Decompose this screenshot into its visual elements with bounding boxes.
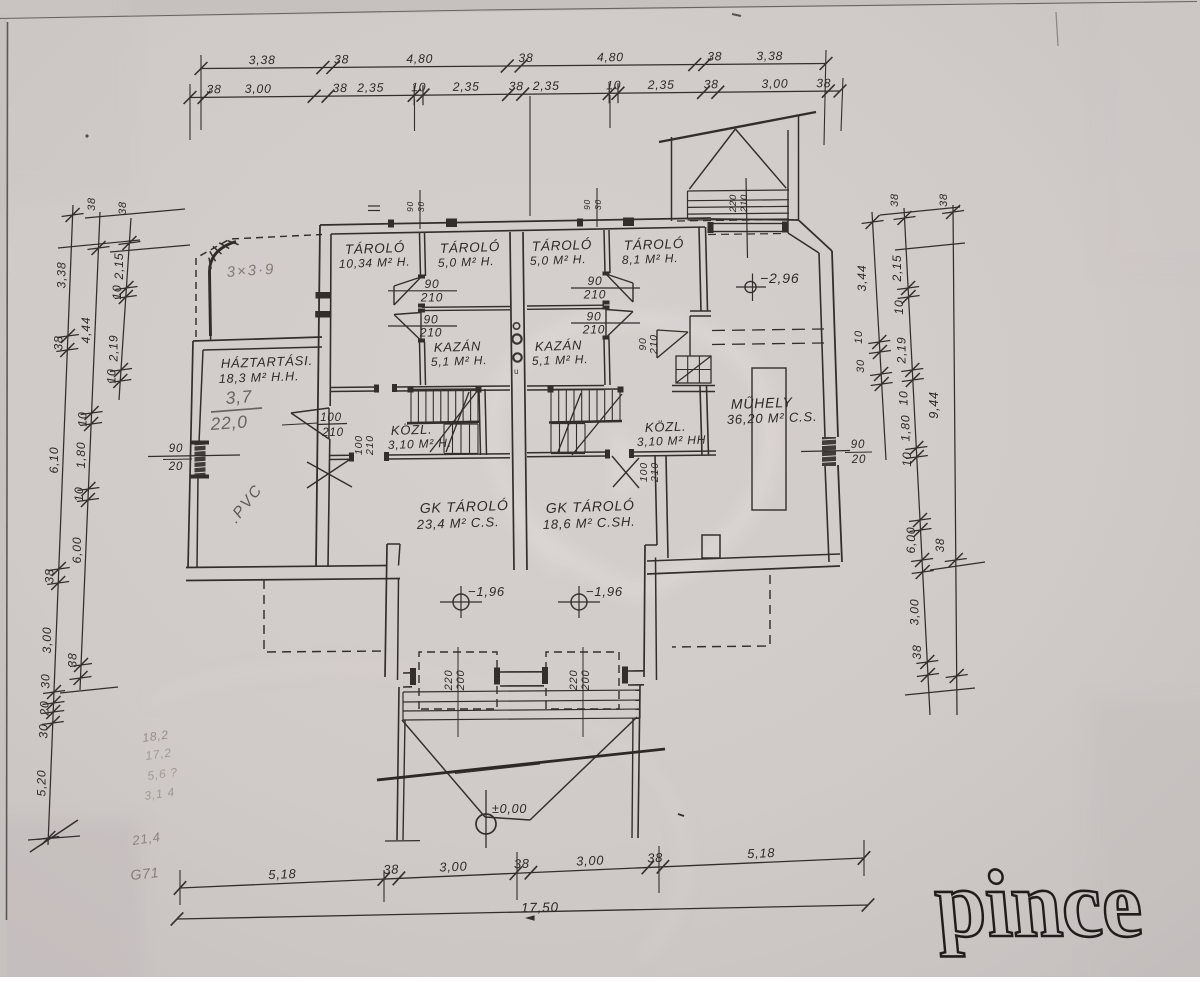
svg-text:−1,96: −1,96: [586, 584, 623, 599]
svg-text:u: u: [514, 367, 518, 376]
svg-text:GK TÁROLÓ: GK TÁROLÓ: [420, 497, 509, 516]
svg-text:220: 220: [728, 194, 739, 213]
svg-text:2,19: 2,19: [106, 335, 120, 363]
svg-text:10: 10: [411, 80, 426, 94]
svg-text:23,4 M² C.S.: 23,4 M² C.S.: [416, 514, 500, 532]
wall below grid: [672, 385, 715, 387]
svg-text:17,50: 17,50: [521, 900, 559, 916]
svg-text:90: 90: [588, 274, 603, 288]
window 90/20 in east wall: [822, 437, 836, 466]
staircase right unit: [550, 390, 552, 422]
dashed boundary right yard: [672, 575, 770, 647]
svg-text:10: 10: [105, 368, 119, 383]
flue circles: [513, 323, 519, 329]
dashed lines muhely: [712, 329, 824, 331]
east wall of tarolo 8,1: [699, 227, 701, 311]
svg-text:210: 210: [583, 288, 606, 302]
svg-text:38: 38: [65, 652, 79, 667]
svg-text:210: 210: [321, 427, 344, 439]
svg-text:6,10: 6,10: [47, 447, 61, 474]
svg-text:3,10 M² HH: 3,10 M² HH: [637, 433, 707, 449]
svg-text:200: 200: [580, 670, 592, 692]
svg-text:6,00: 6,00: [904, 527, 918, 554]
svg-text:−1,96: −1,96: [468, 584, 505, 599]
external stair: [659, 112, 816, 142]
landing below stair: [677, 220, 785, 222]
level mark -2,96: [745, 281, 756, 292]
stair centerline: [746, 178, 748, 258]
wall under KAZAN right: [527, 385, 604, 388]
svg-text:38: 38: [52, 335, 66, 350]
svg-text:38: 38: [889, 193, 901, 207]
bottom dimension row: [180, 858, 864, 888]
svg-text:100: 100: [320, 412, 342, 424]
svg-text:3,00: 3,00: [908, 599, 922, 626]
paper left edge: [0, 14, 7, 977]
left dim chain middle: [80, 212, 100, 690]
svg-text:10: 10: [75, 411, 89, 426]
svg-text:3,10 M² H.: 3,10 M² H.: [388, 436, 452, 452]
svg-text:2,35: 2,35: [452, 80, 480, 94]
svg-text:3,38: 3,38: [54, 262, 68, 289]
svg-text:90: 90: [582, 199, 592, 210]
door 90/210: [394, 277, 421, 305]
svg-text:3,38: 3,38: [249, 53, 276, 67]
extension line: [609, 95, 611, 128]
apron tread lines: [403, 690, 640, 692]
svg-text:±0,00: ±0,00: [492, 802, 527, 816]
svg-text:5,0 M² H.: 5,0 M² H.: [530, 252, 587, 268]
stair triangle: [689, 129, 786, 189]
svg-text:38: 38: [86, 197, 98, 211]
svg-text:1,80: 1,80: [74, 442, 88, 469]
door 100/210 down to garage right: [612, 456, 639, 488]
svg-text:3,00: 3,00: [761, 77, 788, 91]
terrain dashed boundary: [196, 235, 322, 338]
svg-text:38: 38: [707, 49, 722, 63]
svg-text:210: 210: [648, 334, 660, 355]
svg-text:20: 20: [37, 700, 51, 716]
svg-text:2,15: 2,15: [112, 253, 126, 281]
door 90/210 lower: [418, 309, 425, 313]
svg-text:38: 38: [514, 856, 531, 872]
ramp V: [402, 717, 637, 820]
svg-text:10,34 M² H.: 10,34 M² H.: [339, 255, 411, 271]
svg-text:210: 210: [419, 326, 442, 340]
stair treads: [688, 190, 790, 191]
muhely south wall: [647, 566, 840, 574]
window 90/20 in west wall: [195, 443, 206, 475]
annex south wall: [186, 566, 387, 568]
svg-text:210: 210: [364, 435, 376, 456]
vent jamb in top wall: [623, 218, 634, 227]
svg-text:2,19: 2,19: [894, 337, 908, 365]
opening jamb: [315, 311, 331, 318]
svg-text:4,44: 4,44: [79, 317, 93, 344]
workbench rect: [752, 368, 786, 510]
svg-text:10: 10: [897, 390, 911, 405]
svg-text:10: 10: [72, 486, 86, 501]
svg-text:3,7: 3,7: [225, 386, 254, 408]
extension line right: [824, 50, 826, 145]
top dimension row 1: [201, 64, 826, 69]
garage front wall: [403, 672, 412, 674]
svg-text:220: 220: [443, 670, 455, 692]
svg-text:5,20: 5,20: [34, 770, 48, 797]
svg-text:5,0 M² H.: 5,0 M² H.: [438, 254, 495, 270]
axis line to wall: [529, 96, 531, 216]
garage door dashed right 220/200: [546, 652, 619, 709]
wall between TAROLO 5,0 and KAZAN right: [527, 304, 604, 307]
svg-text:G71: G71: [130, 864, 160, 883]
svg-text:38: 38: [332, 81, 347, 95]
dashed boundary left yard: [264, 580, 387, 652]
svg-text:10: 10: [892, 299, 906, 314]
paper fold line: [0, 10, 480, 19]
svg-text:38: 38: [647, 850, 664, 866]
svg-text:pince: pince: [930, 850, 1146, 957]
wall jog: [690, 310, 711, 312]
svg-text:9,44: 9,44: [927, 391, 941, 419]
annex north wall: [193, 337, 322, 341]
svg-text:3,44: 3,44: [855, 265, 869, 292]
svg-text:30: 30: [855, 359, 867, 373]
svg-text:10: 10: [110, 284, 124, 299]
svg-text:3,00: 3,00: [576, 852, 605, 868]
svg-text:3,00: 3,00: [40, 627, 54, 654]
svg-text:90: 90: [851, 439, 865, 451]
svg-text:5,18: 5,18: [747, 845, 776, 861]
svg-text:4,80: 4,80: [406, 52, 433, 66]
left chain bottom tick: [30, 820, 78, 852]
svg-text:18,3 M² H.H.: 18,3 M² H.H.: [219, 369, 300, 386]
small stair grid: [676, 356, 711, 383]
muhely north wall: [711, 219, 799, 220]
partition right unit: [604, 230, 605, 273]
svg-text:6,00: 6,00: [70, 537, 84, 564]
level mark 0,00: [476, 814, 496, 834]
door 90/210 right unit: [606, 274, 633, 302]
svg-text:220: 220: [568, 670, 580, 692]
svg-text:8,1 M² H.: 8,1 M² H.: [622, 251, 679, 267]
bottom total row 17,50: [177, 905, 868, 919]
svg-text:1,80: 1,80: [898, 415, 912, 442]
garage west wall: [387, 543, 400, 545]
svg-text:3,00: 3,00: [439, 858, 468, 874]
svg-text:30: 30: [593, 199, 603, 210]
svg-text:20: 20: [851, 454, 866, 466]
crease mark: [1056, 12, 1058, 46]
svg-text:90: 90: [425, 277, 440, 291]
west exterior wall: [316, 225, 320, 567]
svg-text:22,0: 22,0: [209, 411, 249, 434]
extension line left: [200, 55, 202, 130]
svg-text:4,80: 4,80: [597, 50, 624, 64]
svg-text:3,38: 3,38: [756, 49, 783, 63]
stair side wall left unit: [479, 389, 481, 455]
svg-text:38: 38: [938, 193, 950, 207]
svg-text:38: 38: [518, 51, 533, 65]
svg-text:3,00: 3,00: [245, 82, 272, 96]
svg-text:200: 200: [455, 670, 467, 692]
door HAZTARTASI 100/210: [291, 408, 329, 439]
right dim chain outer: [953, 205, 957, 715]
stair side wall right unit: [700, 386, 702, 455]
door 100/210 down to garage left: [307, 458, 352, 488]
extension line: [414, 99, 416, 131]
svg-text:38: 38: [383, 861, 400, 877]
vent jamb: [577, 219, 583, 227]
svg-text:30: 30: [416, 201, 426, 212]
chamfer corner: [799, 221, 832, 252]
door 90/210 right lower: [603, 306, 610, 310]
svg-text:90: 90: [405, 201, 415, 212]
svg-text:30: 30: [37, 723, 51, 738]
svg-text:2,15: 2,15: [890, 255, 904, 283]
svg-text:210: 210: [739, 194, 750, 213]
svg-text:36,20 M² C.S.: 36,20 M² C.S.: [727, 409, 818, 427]
svg-text:10: 10: [900, 451, 914, 466]
svg-text:20: 20: [168, 461, 183, 473]
svg-text:5,1 M² H.: 5,1 M² H.: [431, 353, 488, 369]
svg-text:HÁZTARTÁSI.: HÁZTARTÁSI.: [221, 353, 314, 371]
left dim chain inner: [119, 218, 131, 400]
annex west wall: [188, 341, 193, 568]
svg-text:38: 38: [43, 568, 57, 583]
svg-text:90: 90: [587, 310, 602, 324]
wall under KOZL left: [330, 454, 351, 456]
right dim chain middle: [904, 208, 930, 715]
svg-text:38: 38: [910, 644, 924, 659]
door centerlines: [457, 647, 459, 737]
garage door dashed left 220/200: [419, 652, 497, 709]
right dim chain inner short: [872, 212, 886, 460]
hatched old wall curve: [210, 242, 237, 337]
svg-text:90: 90: [424, 313, 439, 327]
svg-text:210: 210: [420, 291, 443, 305]
svg-text:38: 38: [935, 538, 947, 552]
svg-text:5,1 M² H.: 5,1 M² H.: [532, 352, 589, 368]
svg-text:38: 38: [509, 79, 524, 93]
muhely east wall: [832, 251, 838, 437]
wall between TAROLO 5,0 and KAZAN: [422, 306, 510, 309]
staircase left unit: [410, 390, 412, 422]
svg-text:10: 10: [606, 78, 621, 92]
svg-text:38: 38: [816, 76, 831, 90]
top exterior wall: [320, 218, 711, 225]
svg-text:38: 38: [334, 52, 349, 66]
wall right of garage: [655, 455, 657, 545]
svg-text:38: 38: [206, 82, 221, 96]
chimney notch on south wall: [702, 535, 720, 558]
pince logo: [930, 850, 1146, 957]
svg-text:10: 10: [853, 330, 865, 344]
svg-text:210: 210: [582, 323, 605, 337]
svg-text:2,35: 2,35: [532, 79, 560, 93]
level marks -1,96: [453, 594, 469, 610]
svg-text:3×3·9: 3×3·9: [226, 261, 276, 281]
opening jamb: [316, 292, 332, 299]
speck: [732, 14, 741, 16]
wall under KAZAN left: [331, 386, 376, 389]
door 90/210 to stair: [657, 330, 688, 358]
svg-text:KÖZL.: KÖZL.: [391, 422, 433, 438]
bold section line: [377, 749, 665, 780]
svg-text:GK TÁROLÓ: GK TÁROLÓ: [546, 497, 635, 516]
wall under KOZL right: [527, 451, 607, 454]
central party wall: [510, 232, 514, 570]
svg-text:−2,96: −2,96: [760, 270, 799, 286]
chimney axis right: [596, 188, 598, 227]
svg-text:5,18: 5,18: [268, 866, 297, 882]
svg-text:38: 38: [704, 77, 719, 91]
top dimension row 2: [190, 91, 840, 98]
window leader: [148, 455, 240, 457]
svg-text:2,35: 2,35: [647, 78, 675, 92]
chimney axis left: [419, 190, 421, 229]
svg-text:38: 38: [117, 201, 129, 215]
ramp side walls: [397, 687, 399, 840]
vent jamb: [388, 220, 394, 228]
partition left unit: [420, 233, 421, 276]
vent jamb in top wall: [446, 219, 457, 228]
svg-text:30: 30: [38, 673, 52, 688]
svg-text:90: 90: [169, 443, 183, 455]
left dim chain outer: [48, 205, 73, 845]
svg-text:2,35: 2,35: [356, 81, 384, 95]
